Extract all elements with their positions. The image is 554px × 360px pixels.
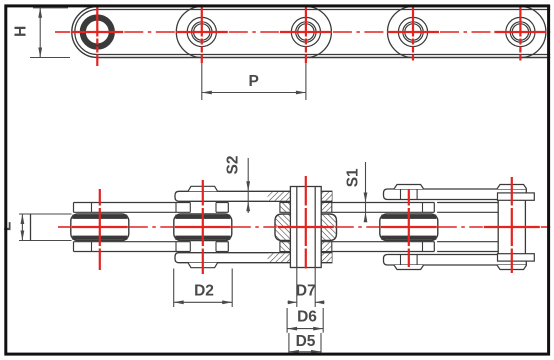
wire flange box left edge pin2 r mirror: [215, 242, 217, 252]
pin head at pin 2 bottom: [188, 263, 218, 268]
wire chain inner bottom edge: [97, 54, 554, 56]
wire red vertical centerline top joint 2: [201, 6, 203, 63]
outer plate bar top (pins 4-5): [384, 189, 527, 200]
wire red vertical centerline plan pin 3: [305, 176, 307, 269]
wire D2 extension left: [173, 269, 175, 308]
bushing circle joint 4: [398, 17, 427, 46]
svg-text:P: P: [249, 73, 259, 90]
wire D2 extension right: [231, 269, 233, 308]
wire red vertical centerline plan pin 4: [408, 189, 410, 267]
roller R1 large (side view): [83, 18, 112, 47]
wire flange box right edge pin2 mirror: [189, 242, 191, 252]
bushing circle joint 3: [291, 17, 320, 46]
outer plate bar bottom (pins 4-5): [384, 255, 527, 266]
wire P extension line right: [305, 61, 307, 101]
wire inner plate B top edge: [332, 202, 435, 204]
wire H dimension line: [39, 8, 41, 58]
node link arc joint 3: [306, 7, 332, 58]
bushing circle joint 2: [187, 17, 216, 46]
wire flange box right edge pin2: [189, 203, 191, 213]
wire chain left end edge: [30, 214, 32, 241]
wire chain outer bottom edge: [97, 57, 554, 59]
wire inner plate A seg2 lower edge: [216, 211, 228, 213]
hollow pin middle: [290, 187, 321, 268]
node D2 arrow left: [174, 300, 184, 304]
washer box bottom pin 5: [498, 254, 535, 261]
wire red vertical centerline top joint 4: [412, 6, 414, 61]
wire red vertical centerline plan pin 5: [511, 177, 513, 273]
node D6 arrow right: [313, 327, 323, 331]
outer plate bar bottom (pins 2-3): [175, 253, 332, 263]
node S1 arrow up: [364, 212, 368, 222]
node link arc joint 4: [388, 7, 413, 58]
wire flange box left edge pin2 mirror: [175, 242, 177, 252]
pin bore circle joint 5: [512, 24, 528, 40]
section hatch outer bar bottom: [268, 253, 291, 262]
wire inner plate A seg2 top edge: [216, 202, 228, 204]
pin head at pin 4 top: [394, 185, 424, 190]
wire D7 tail left: [288, 301, 297, 303]
wire chain inner top edge: [97, 9, 554, 11]
wire inner plate B tick mirror: [422, 242, 424, 252]
section hatch outer bar bottom: [321, 253, 332, 262]
pin head at pin 2 top: [188, 186, 218, 191]
section hatch outer bar top: [321, 192, 332, 201]
wire red centerline top view: [55, 31, 553, 33]
wire inner plate A right end: [227, 203, 229, 213]
node H arrow up: [38, 8, 42, 18]
sectioned bushing block middle: [275, 214, 337, 241]
wire D7 tail right: [315, 301, 324, 303]
wire inner plate A left end: [73, 203, 75, 213]
wire flange box left edge pin2 r: [215, 203, 217, 213]
node D5 arrow left: [289, 350, 299, 354]
wire inner plate A seg1 mirror top edge: [74, 251, 191, 253]
section hatch outer bar top: [268, 192, 291, 201]
wire chain outer top edge: [97, 6, 554, 8]
wire inner plate B right end: [433, 203, 435, 213]
wire inner plate A seg1 top edge: [74, 202, 191, 204]
pin bore circle joint 2: [194, 24, 210, 40]
pin outer circle joint 2: [192, 22, 212, 42]
margin mask left: [0, 0, 4, 360]
svg-text:D7: D7: [296, 283, 316, 300]
pin outer circle joint 3: [296, 22, 316, 42]
bushing circle joint 5: [506, 17, 535, 46]
node S2 arrow down: [246, 181, 250, 191]
wire S2 dimension line: [247, 158, 249, 213]
wire washer tick pin 4 top: [416, 189, 418, 200]
pin bore circle joint 3: [298, 24, 314, 40]
svg-text:S2: S2: [224, 156, 241, 175]
wire bushing right edge pin 5: [524, 200, 526, 253]
washer box top pin 5: [498, 193, 535, 200]
wire inner plate B lower edge: [332, 211, 435, 213]
outer plate bar top (pins 2-3): [175, 191, 332, 201]
wire red vertical centerline plan pin 2: [202, 180, 204, 274]
wire inner plate A right end mirror: [227, 242, 229, 252]
wire D6 extension right: [322, 308, 324, 333]
wire flange box left edge pin2: [175, 203, 177, 213]
node P arrow right: [296, 91, 306, 95]
pin outer circle joint 4: [403, 22, 423, 42]
node D7 arrow from right: [315, 300, 324, 304]
wire S1 dimension line: [365, 162, 367, 222]
wire inner plate A tick mirror: [91, 242, 93, 252]
wire L dimension line: [21, 214, 23, 241]
pin head at pin 5 bottom: [497, 265, 527, 270]
roller (plan) at pin 4: [380, 214, 438, 241]
wire inner plate A tick: [91, 203, 93, 213]
wire inner plate B right end mirror: [433, 242, 435, 252]
wire washer tick pin 4 bottom: [416, 255, 418, 266]
svg-text:H: H: [13, 26, 30, 37]
wire H bottom extension line: [30, 57, 70, 59]
wire washer tick pin 4 top: [400, 189, 402, 200]
pin bore circle joint 4: [405, 24, 421, 40]
wire inner plate C top edge: [437, 202, 498, 204]
wire inner plate A seg1 mirror lower edge: [74, 241, 191, 243]
wire pin bore right edge: [314, 187, 316, 268]
wire inner plate A left end mirror: [73, 242, 75, 252]
roller (plan) at pin 1: [71, 214, 129, 241]
node H arrow down: [38, 48, 42, 58]
wire P extension line left: [201, 61, 203, 101]
wire H top extension line: [33, 7, 68, 9]
wire red centerline plan view: [58, 226, 553, 228]
wire inner plate A seg1 lower edge: [74, 211, 191, 213]
svg-text:D5: D5: [296, 333, 316, 350]
wire D5 extension left: [288, 333, 290, 355]
wire bushing left edge pin 5: [497, 200, 499, 253]
node L arrow down: [21, 231, 25, 241]
wire inner plate B mirror top edge: [332, 251, 435, 253]
wire D5 extension right: [320, 333, 322, 355]
node link arc joint 2: [176, 7, 202, 58]
node D7 arrow from left: [288, 300, 297, 304]
wire inner plate C mirror top edge: [437, 251, 498, 253]
wire D7 extension right: [314, 267, 316, 307]
section hatch inner band bottom: [280, 242, 291, 252]
svg-text:S1: S1: [344, 168, 361, 187]
wire red vertical centerline top joint 5: [519, 6, 521, 61]
wire inner plate C lower edge: [437, 211, 498, 213]
wire left end bottom line / L extension: [19, 240, 72, 242]
node S2 arrow up: [246, 201, 250, 211]
wire red vertical centerline top joint 3: [305, 6, 307, 63]
wire D7 extension left: [296, 267, 298, 307]
margin mask bottom: [0, 356, 554, 360]
pin outer circle joint 5: [510, 22, 530, 42]
pin head at pin 4 bottom: [394, 265, 424, 270]
section hatch inner band top: [280, 203, 291, 213]
node link arc joint 5: [520, 7, 546, 58]
node D6 arrow left: [287, 327, 297, 331]
wire pin bore left edge: [296, 187, 298, 268]
wire D5 dimension line: [289, 351, 321, 353]
node P arrow left: [202, 91, 212, 95]
roller (plan) at pin 2: [174, 214, 232, 241]
wire D6 extension left: [286, 308, 288, 333]
wire P dimension line: [202, 92, 306, 94]
node left end outer arc: [72, 7, 98, 58]
margin mask top: [0, 0, 554, 4]
node left end inner arc: [75, 10, 97, 55]
svg-text:D6: D6: [297, 309, 317, 326]
wire inner plate C mirror lower edge: [437, 241, 498, 243]
wire inner plate B tick: [422, 203, 424, 213]
wire washer tick pin 4 bottom: [400, 255, 402, 266]
wire red vertical centerline plan pin 1: [99, 189, 101, 270]
section hatch inner band bottom: [321, 242, 332, 252]
node L arrow up: [21, 214, 25, 224]
node S1 arrow down: [364, 193, 368, 203]
wire red vertical centerline top joint 1: [96, 6, 98, 66]
wire D6 dimension line: [287, 328, 323, 330]
node D2 arrow right: [222, 300, 232, 304]
wire inner plate A seg2 mirror top edge: [216, 251, 228, 253]
wire inner plate A seg2 mirror lower edge: [216, 241, 228, 243]
margin mask right: [550, 0, 554, 360]
wire left end top line / L extension: [19, 213, 72, 215]
wire inner plate B mirror lower edge: [332, 241, 435, 243]
wire D2 dimension line: [174, 301, 233, 303]
svg-text:D2: D2: [194, 283, 214, 300]
section hatch inner band top: [321, 203, 332, 213]
node D5 arrow right: [311, 350, 321, 354]
pin head at pin 5 top: [497, 185, 527, 190]
